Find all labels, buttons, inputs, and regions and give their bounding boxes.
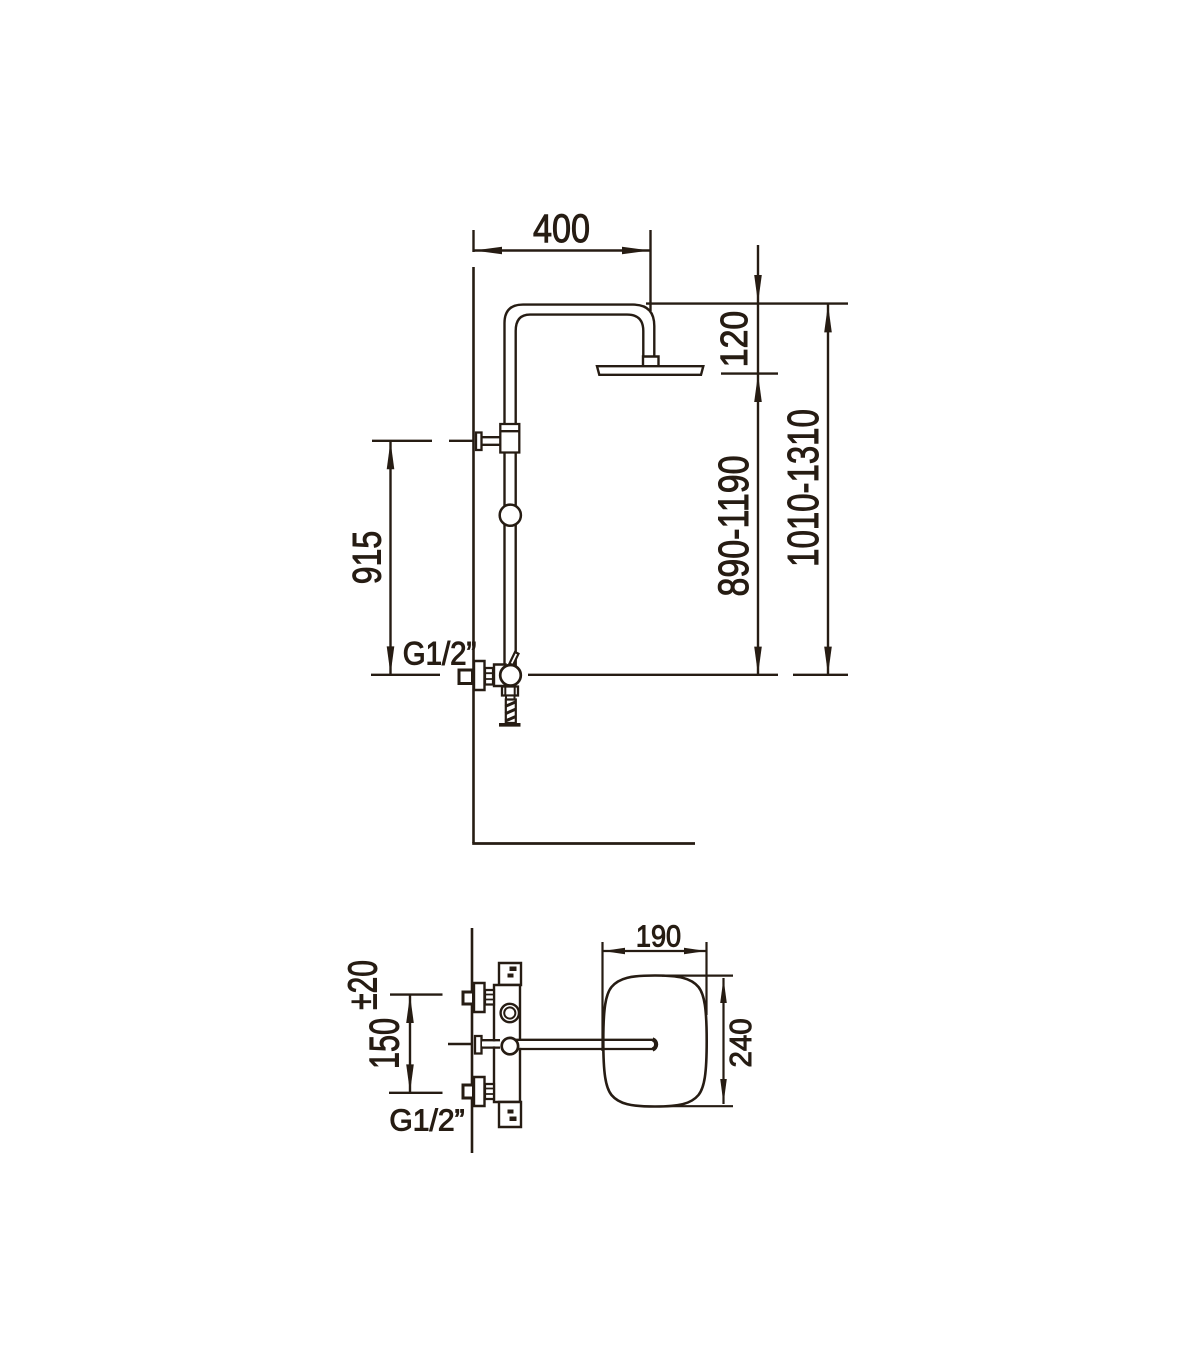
- dim 890-1190 top arrowhead: [754, 374, 762, 402]
- valve wall flange (side view): [474, 661, 485, 690]
- slide bar wall bracket tab: [476, 433, 482, 451]
- lower inlet square: [463, 1085, 474, 1098]
- centerline tick (arm level): [448, 1043, 472, 1045]
- dim 400 right extension line: [649, 230, 651, 311]
- svg-text:400: 400: [533, 205, 590, 250]
- head squircle (top view): [603, 976, 706, 1107]
- diverter knob inner circle: [504, 1007, 515, 1018]
- svg-text:890-1190: 890-1190: [710, 456, 758, 597]
- screw marks top: [508, 967, 517, 978]
- svg-text:G1/2”: G1/2”: [403, 635, 477, 671]
- svg-text:240: 240: [724, 1018, 758, 1067]
- svg-text:190: 190: [636, 920, 681, 954]
- grip hatching: [505, 702, 515, 721]
- supply elbow square G1/2: [459, 670, 473, 684]
- dim 150 top arrowhead: [406, 995, 414, 1023]
- valve body (side view): [494, 665, 506, 687]
- svg-text:G1/2”: G1/2”: [389, 1103, 464, 1138]
- dim 240 top arrowhead: [720, 978, 727, 1003]
- slide bar collar: [500, 424, 519, 453]
- dim 915 bottom extension line: [371, 674, 440, 676]
- svg-text:1010-1310: 1010-1310: [780, 409, 829, 567]
- dim 190 left arrowhead: [603, 948, 625, 955]
- dim 1010-1310 bottom arrowhead: [824, 647, 832, 675]
- valve body (top view): [494, 985, 520, 1102]
- dim 915 top extension line segment a: [372, 440, 432, 442]
- dim 400 left arrowhead: [474, 247, 502, 255]
- valve connector nut: [485, 668, 493, 685]
- dim 240 bottom extension line: [666, 1105, 733, 1107]
- dim 120 upper line with down arrow: [757, 245, 759, 374]
- handshower holder collar: [502, 687, 518, 696]
- valve handle circle: [500, 665, 521, 686]
- extension line (valve level right segment 1): [528, 674, 778, 676]
- arm swivel joint circle: [502, 1038, 518, 1054]
- arm mount neck: [482, 1041, 506, 1046]
- shower arm bar (top view): [510, 1041, 653, 1048]
- shower head connector block: [643, 357, 659, 367]
- svg-text:±20: ±20: [340, 960, 386, 1010]
- dim 915 bottom arrowhead: [387, 646, 395, 674]
- dim 150 bottom extension line: [389, 1092, 443, 1094]
- upper inlet wall plate: [474, 983, 485, 1012]
- svg-text:915: 915: [344, 531, 389, 584]
- lower inlet wall plate: [474, 1077, 485, 1106]
- handshower neck: [506, 696, 515, 700]
- dim 915 dimension line: [389, 441, 391, 675]
- screw marks bottom: [508, 1110, 517, 1122]
- dim 150 bottom arrowhead: [406, 1064, 414, 1092]
- lower inlet nut: [485, 1084, 494, 1099]
- dim 190 right arrowhead: [684, 948, 706, 955]
- valve top mounting square (top view): [499, 963, 521, 985]
- handshower base cap: [499, 723, 521, 727]
- upper inlet square: [463, 992, 474, 1004]
- wall line (top view): [471, 928, 474, 1153]
- overhead shower head (side view): [597, 366, 703, 375]
- shower arm outer line: [505, 305, 655, 666]
- handshower grip (hose): [506, 700, 516, 724]
- dim 240 bottom arrowhead: [720, 1079, 727, 1104]
- dim 150 dimension line: [409, 995, 411, 1093]
- arm end cap: [653, 1039, 657, 1049]
- upper inlet nut: [485, 990, 494, 1005]
- slider ring: [500, 505, 521, 526]
- dim 915 top arrowhead: [387, 441, 395, 469]
- slide bar collar divider: [500, 430, 519, 432]
- slide bar bracket arm: [482, 437, 501, 445]
- dim 190 dimension line: [603, 950, 707, 952]
- dim 240 dimension line: [722, 978, 724, 1104]
- dim 190 left extension line: [601, 942, 603, 1051]
- dim 190 right extension line: [705, 942, 707, 1015]
- extension line (head bottom level): [721, 372, 778, 374]
- dim 400 left extension tick: [472, 230, 474, 252]
- arm wall mount tab: [475, 1036, 482, 1054]
- floor line: [472, 842, 695, 845]
- svg-text:150: 150: [361, 1018, 408, 1069]
- dim 400 right arrowhead: [622, 247, 650, 255]
- dim 890-1190 dimension line: [757, 374, 759, 675]
- extension line (valve level right segment 2): [793, 674, 848, 676]
- valve bottom mounting square (top view): [499, 1102, 521, 1127]
- wall line (side view): [472, 267, 475, 843]
- diverter knob outer circle: [501, 1004, 519, 1022]
- dim 1010-1310 dimension line: [827, 304, 829, 675]
- dim 240 top extension line: [662, 974, 733, 976]
- dim 400 dimension line: [474, 249, 651, 251]
- dim 1010-1310 top arrowhead: [824, 304, 832, 332]
- shower arm inner line: [516, 315, 644, 666]
- dim 890-1190 bottom arrowhead: [754, 647, 762, 675]
- dim 150 top extension line: [390, 993, 443, 995]
- dim 915 top extension line segment b: [449, 440, 473, 442]
- valve lever: [510, 652, 519, 665]
- svg-text:120: 120: [712, 311, 755, 367]
- top extension line (arm top level): [646, 302, 848, 304]
